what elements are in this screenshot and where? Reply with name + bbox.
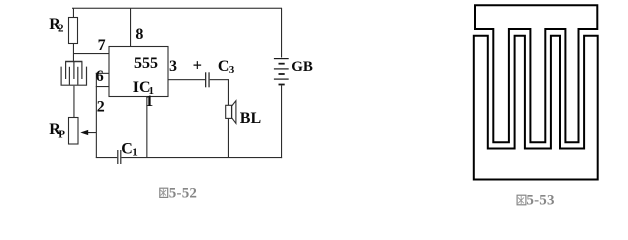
speaker BL <box>226 101 236 124</box>
wire pin2 stub <box>96 86 109 87</box>
svg-text:C: C <box>218 58 230 75</box>
wire top rail <box>72 8 282 9</box>
wiper arrow of RP <box>80 130 96 135</box>
svg-text:BL: BL <box>240 110 261 127</box>
wire right rail top <box>281 8 282 58</box>
svg-text:+: + <box>193 56 202 75</box>
capacitor C3 <box>205 72 210 87</box>
svg-text:8: 8 <box>135 26 143 43</box>
wire pin3 <box>168 79 205 80</box>
caption figure 5-53 <box>517 192 555 208</box>
wire right rail bottom <box>281 85 282 158</box>
wire pin7 <box>73 53 109 54</box>
svg-text:6: 6 <box>96 68 104 85</box>
wire R2 bottom lead <box>73 44 74 62</box>
caption figure 5-52 <box>160 186 197 202</box>
svg-text:2: 2 <box>97 99 105 116</box>
svg-text:555: 555 <box>134 55 158 72</box>
sensor humidity probe bottom electrode <box>61 67 86 86</box>
svg-text:1: 1 <box>132 147 138 159</box>
svg-text:5-52: 5-52 <box>169 186 197 202</box>
wire bottom rail left segment <box>96 157 117 158</box>
svg-text:3: 3 <box>169 58 177 75</box>
wire corner down to speaker <box>228 79 229 105</box>
svg-text:1: 1 <box>145 93 153 110</box>
wire sensor bottom to RP <box>73 86 74 118</box>
svg-text:P: P <box>58 129 65 141</box>
wire node pins 2-6 vertical <box>96 73 97 158</box>
potentiometer RP <box>69 118 79 145</box>
wire pin6 stub <box>96 73 109 74</box>
wire R2 top lead <box>73 8 74 18</box>
svg-text:C: C <box>121 141 133 158</box>
sensor humidity probe top electrode <box>65 62 82 80</box>
wire bottom rail right segment <box>121 157 282 158</box>
capacitor C1 <box>117 150 121 164</box>
electrode pattern bottom comb <box>474 36 598 180</box>
wire pin1 vertical <box>146 97 147 158</box>
op-amp U1 555 timer IC1 box <box>109 47 168 97</box>
svg-text:7: 7 <box>98 37 106 54</box>
svg-text:2: 2 <box>58 23 64 35</box>
electrode pattern top comb <box>475 5 597 142</box>
svg-text:3: 3 <box>229 64 235 76</box>
wire pin8 <box>130 8 131 47</box>
wire C3 to corner <box>210 79 229 80</box>
svg-text:GB: GB <box>291 59 313 75</box>
battery GB <box>274 58 289 85</box>
svg-text:5-53: 5-53 <box>526 192 554 208</box>
resistor R2 <box>69 18 78 44</box>
wire speaker to bottom rail <box>228 119 229 158</box>
